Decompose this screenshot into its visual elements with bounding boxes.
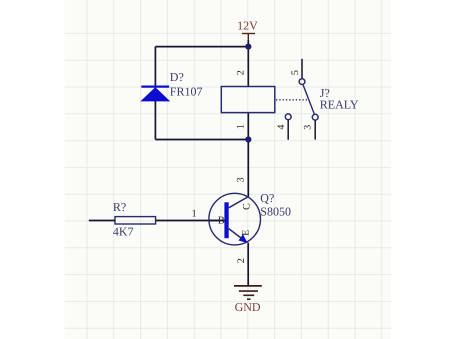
svg-text:FR107: FR107 [170, 84, 203, 98]
wire: top rail [155, 46, 248, 48]
svg-text:REALY: REALY [320, 98, 359, 112]
relay pin 4 lead [287, 120, 289, 140]
svg-text:2: 2 [236, 258, 247, 263]
wire: bottom rail [155, 139, 248, 141]
svg-text:R?: R? [113, 200, 126, 214]
junction at bottom rail [245, 136, 251, 142]
power port 12V bar [242, 34, 255, 41]
wire: left rail through diode [154, 47, 156, 140]
svg-text:GND: GND [235, 300, 261, 314]
wire: relay coil top [247, 47, 249, 87]
wire: base wire right segment [156, 220, 225, 222]
schematic sheet background [65, 0, 392, 339]
wire: base wire left segment [89, 220, 115, 222]
wire: base wire inside circle [209, 220, 225, 222]
relay pin 5 contact circle [299, 79, 305, 85]
svg-text:B: B [218, 216, 225, 227]
svg-text:2: 2 [236, 70, 247, 75]
ground symbol bars [234, 286, 262, 299]
transistor emitter stroke [229, 229, 247, 243]
svg-text:4K7: 4K7 [113, 225, 134, 239]
svg-text:3: 3 [303, 125, 314, 130]
transistor Q1 body circle [209, 193, 261, 245]
relay coupling dotted line [276, 99, 308, 101]
relay pin 5 lead [301, 59, 303, 79]
wire: power stub to junction [247, 40, 249, 47]
svg-text:S8050: S8050 [260, 205, 291, 219]
svg-text:4: 4 [276, 125, 287, 130]
svg-text:1: 1 [236, 124, 247, 129]
transistor base bar [224, 202, 228, 238]
relay switch blade [303, 84, 314, 113]
svg-text:1: 1 [192, 208, 197, 219]
relay pin 4 contact circle [285, 114, 291, 120]
relay pin 3 lead [314, 120, 316, 139]
relay coil rectangle [221, 87, 274, 113]
wire: collector vertical [247, 140, 249, 197]
diode D1 triangle [142, 88, 169, 101]
transistor collector stroke [229, 197, 249, 208]
wire: relay coil bottom [247, 113, 249, 140]
junction at 12V rail [245, 44, 251, 50]
svg-text:E: E [240, 230, 251, 236]
svg-text:12V: 12V [237, 19, 258, 33]
relay pin 3 contact circle [312, 114, 318, 120]
svg-text:Q?: Q? [260, 191, 274, 205]
resistor R1 body [115, 217, 156, 224]
transistor emitter arrowhead [239, 234, 248, 243]
svg-text:C: C [241, 203, 252, 210]
svg-text:5: 5 [290, 70, 301, 75]
svg-text:D?: D? [170, 70, 184, 84]
wire: emitter vertical to ground [247, 243, 249, 286]
svg-text:3: 3 [235, 177, 246, 182]
diode D1 cathode bar [141, 85, 169, 87]
